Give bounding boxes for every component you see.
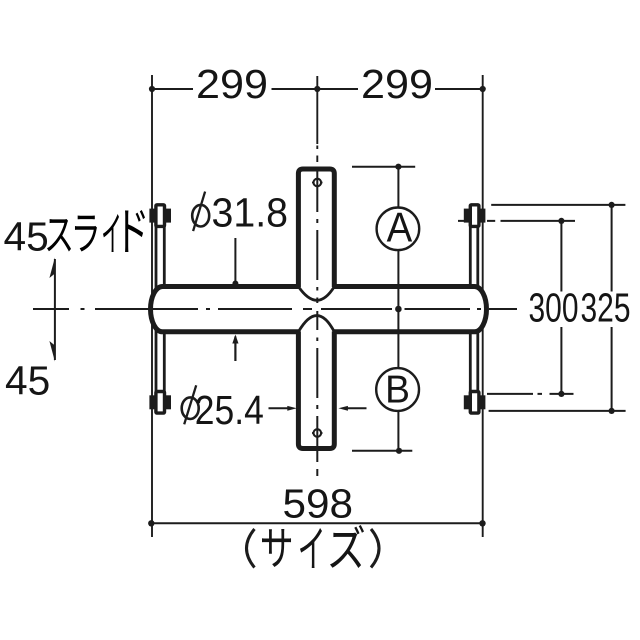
label phi31.8 <box>192 190 288 236</box>
dimension line 598 <box>151 522 482 524</box>
vertical pipe lower section <box>298 315 334 448</box>
svg-text:598: 598 <box>283 481 354 527</box>
extension line middle top <box>316 76 318 144</box>
svg-text:31.8: 31.8 <box>212 190 289 236</box>
svg-text:B: B <box>385 369 410 412</box>
label (size) <box>247 525 380 568</box>
leader phi31.8 <box>232 238 238 361</box>
clamp centerline top right <box>458 220 575 222</box>
horizontal centerline <box>33 308 517 310</box>
dim line 325 <box>611 205 613 411</box>
svg-text:45: 45 <box>4 214 49 260</box>
svg-text:A: A <box>387 203 413 250</box>
clamp centerline bottom right <box>487 393 574 395</box>
vertical centerline <box>316 170 318 477</box>
clamp top-right <box>464 205 486 227</box>
right rail tubes <box>470 216 478 402</box>
slide arrow line <box>54 259 56 360</box>
clamp top-left <box>149 205 171 227</box>
marker line A/B top tick <box>352 166 415 168</box>
svg-text:299: 299 <box>361 61 433 107</box>
leader phi25.4 <box>269 406 367 411</box>
label phi25.4 <box>182 385 264 433</box>
balloon A <box>377 203 420 250</box>
horizontal pipe body <box>151 287 487 332</box>
left rail tubes <box>156 216 164 402</box>
extension line right (x=482.7) <box>482 75 484 537</box>
svg-text:299: 299 <box>196 61 268 107</box>
clamp bottom-left <box>149 392 171 414</box>
dim 325 top tick <box>491 204 625 206</box>
marker line A/B bottom tick <box>352 450 412 452</box>
bottom hole <box>312 429 323 437</box>
dim 325 bottom tick <box>489 410 626 412</box>
dim line 300 <box>560 221 562 394</box>
svg-text:325: 325 <box>581 285 631 331</box>
svg-text:300: 300 <box>529 285 579 331</box>
clamp bottom-right <box>464 392 486 414</box>
extension line left (x=152) <box>151 75 153 537</box>
svg-text:25.4: 25.4 <box>195 387 264 433</box>
marker vertical line <box>397 167 399 451</box>
balloon B <box>376 368 419 412</box>
vertical pipe upper section <box>298 169 334 301</box>
svg-text:45: 45 <box>5 357 50 403</box>
dimension line 299+299 <box>152 88 483 90</box>
top hole <box>312 179 323 187</box>
